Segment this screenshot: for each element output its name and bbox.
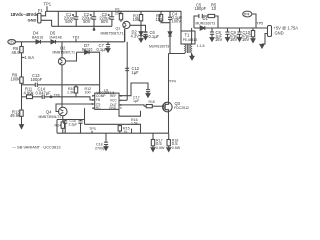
svg-text:RC: RC <box>96 106 101 110</box>
svg-text:MMBT5087LT1: MMBT5087LT1 <box>101 31 124 35</box>
svg-text:F1: F1 <box>38 8 44 13</box>
svg-text:GND: GND <box>275 31 284 36</box>
svg-text:MURS160T3: MURS160T3 <box>196 22 216 26</box>
svg-text:1.3k: 1.3k <box>67 90 74 94</box>
svg-text:MURS160T3: MURS160T3 <box>149 44 169 48</box>
svg-text:TP3: TP3 <box>73 35 80 39</box>
svg-text:TP2: TP2 <box>9 40 15 44</box>
svg-text:0.5W: 0.5W <box>172 146 181 150</box>
svg-text:BAS16: BAS16 <box>82 48 93 52</box>
svg-text:1 mA: 1 mA <box>25 55 35 60</box>
svg-text:0.047µF: 0.047µF <box>36 90 52 95</box>
svg-text:2.2µF: 2.2µF <box>69 122 78 126</box>
svg-text:50V: 50V <box>83 19 91 24</box>
svg-text:TP5: TP5 <box>257 21 264 25</box>
svg-text:— SB-VARIANT · UCC3813: — SB-VARIANT · UCC3813 <box>12 144 61 149</box>
svg-text:MMBT3904LT1: MMBT3904LT1 <box>39 115 62 119</box>
svg-text:T1: T1 <box>185 32 191 37</box>
svg-text:R15: R15 <box>149 100 155 104</box>
svg-text:1.5k: 1.5k <box>131 121 138 125</box>
svg-text:50V: 50V <box>65 19 73 24</box>
svg-text:R14: R14 <box>55 124 62 128</box>
svg-text:180pF: 180pF <box>195 6 207 11</box>
svg-text:MMBT5087LT1: MMBT5087LT1 <box>53 51 76 55</box>
svg-text:TP4: TP4 <box>243 13 249 17</box>
svg-text:16V: 16V <box>242 37 250 42</box>
svg-text:0.1µF: 0.1µF <box>97 47 108 52</box>
svg-text:16V: 16V <box>215 37 223 42</box>
svg-text:100k: 100k <box>11 76 21 81</box>
svg-text:TP3: TP3 <box>89 127 96 131</box>
svg-text:FDC2512: FDC2512 <box>174 106 189 110</box>
svg-text:BAS16: BAS16 <box>32 35 43 39</box>
svg-text:49.9k: 49.9k <box>10 113 21 118</box>
svg-text:VCC: VCC <box>110 99 117 103</box>
svg-text:UCC3813-5: UCC3813-5 <box>97 91 115 95</box>
svg-text:1:1.6: 1:1.6 <box>197 44 205 48</box>
svg-text:18Vdc~48Vdc: 18Vdc~48Vdc <box>11 12 39 17</box>
svg-text:100V: 100V <box>172 19 182 24</box>
svg-text:0.5W: 0.5W <box>156 146 165 150</box>
svg-text:1k: 1k <box>124 130 128 134</box>
svg-text:TP6: TP6 <box>54 93 60 97</box>
svg-text:150: 150 <box>156 17 164 22</box>
svg-text:4.3V: 4.3V <box>131 33 140 38</box>
svg-text:49.9: 49.9 <box>12 50 21 55</box>
svg-text:20k: 20k <box>115 12 121 16</box>
svg-text:10: 10 <box>212 6 217 11</box>
svg-text:GND: GND <box>109 106 117 110</box>
svg-text:TP4: TP4 <box>170 80 176 84</box>
svg-text:5: 5 <box>120 106 122 110</box>
svg-text:TP1: TP1 <box>44 2 52 7</box>
svg-text:4.99k: 4.99k <box>24 90 35 95</box>
svg-text:D1: D1 <box>203 16 209 21</box>
svg-text:16V: 16V <box>230 37 238 42</box>
svg-text:10k: 10k <box>133 17 141 22</box>
svg-text:2700pF: 2700pF <box>95 146 108 150</box>
svg-text:GND: GND <box>28 17 37 22</box>
svg-text:50V: 50V <box>101 19 109 24</box>
svg-text:100: 100 <box>85 90 91 94</box>
svg-text:Q1: Q1 <box>116 26 121 30</box>
svg-text:1µF: 1µF <box>132 70 140 75</box>
svg-text:0.1µF: 0.1µF <box>149 34 160 39</box>
svg-text:1µF: 1µF <box>133 99 140 103</box>
svg-text:1N4148: 1N4148 <box>49 35 62 39</box>
svg-text:100pF: 100pF <box>31 77 43 82</box>
svg-text:PE-68413: PE-68413 <box>183 38 197 42</box>
